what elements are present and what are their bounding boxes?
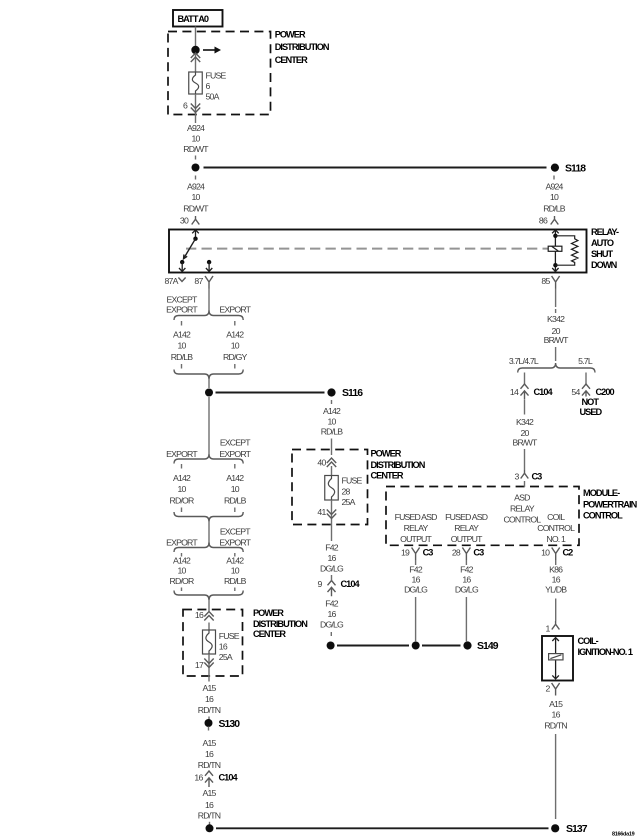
svg-text:RD/TN: RD/TN [198, 760, 221, 770]
svg-text:A924: A924 [187, 182, 205, 192]
svg-text:K342: K342 [516, 417, 534, 427]
svg-text:16: 16 [194, 773, 203, 783]
svg-text:16: 16 [205, 749, 214, 759]
svg-text:A142: A142 [323, 406, 341, 416]
svg-text:EXPORT: EXPORT [219, 449, 251, 459]
svg-text:16: 16 [205, 694, 214, 704]
svg-text:RD/OR: RD/OR [170, 496, 195, 506]
svg-text:14: 14 [510, 387, 519, 397]
svg-text:RELAY-: RELAY- [591, 227, 619, 237]
svg-text:54: 54 [571, 387, 580, 397]
svg-text:EXPORT: EXPORT [219, 305, 251, 315]
svg-text:FUSE: FUSE [206, 71, 227, 81]
svg-text:C3: C3 [532, 471, 543, 481]
svg-text:MODULE-: MODULE- [583, 488, 620, 498]
svg-text:POWERTRAIN: POWERTRAIN [583, 500, 638, 510]
svg-text:16: 16 [552, 710, 561, 720]
svg-text:16: 16 [205, 800, 214, 810]
svg-text:S149: S149 [477, 641, 499, 652]
svg-text:RD/TN: RD/TN [198, 811, 221, 821]
svg-text:86: 86 [539, 216, 548, 226]
svg-text:A924: A924 [545, 182, 563, 192]
svg-text:A142: A142 [173, 473, 191, 483]
svg-text:A15: A15 [202, 788, 216, 798]
svg-text:EXPORT: EXPORT [166, 449, 198, 459]
svg-text:20: 20 [520, 428, 529, 438]
svg-text:10: 10 [191, 134, 200, 144]
svg-text:17: 17 [195, 660, 204, 670]
svg-text:RELAY: RELAY [510, 504, 535, 514]
svg-text:RD/LB: RD/LB [543, 204, 566, 214]
svg-text:RD/LB: RD/LB [321, 427, 344, 437]
svg-text:30: 30 [180, 216, 189, 226]
svg-text:16: 16 [552, 575, 561, 585]
svg-text:A15: A15 [202, 738, 216, 748]
svg-text:F42: F42 [325, 599, 339, 609]
svg-text:16: 16 [195, 610, 204, 620]
svg-text:DG/LG: DG/LG [404, 585, 428, 595]
svg-text:16: 16 [412, 575, 421, 585]
svg-text:YL/DB: YL/DB [545, 585, 567, 595]
svg-text:C3: C3 [473, 548, 484, 558]
svg-text:16: 16 [219, 642, 228, 652]
svg-text:FUSED ASD: FUSED ASD [395, 512, 438, 522]
svg-text:OUTPUT: OUTPUT [451, 534, 483, 544]
svg-text:A142: A142 [226, 330, 244, 340]
svg-text:25A: 25A [342, 497, 356, 507]
svg-text:C2: C2 [563, 548, 574, 558]
svg-text:EXCEPT: EXCEPT [167, 294, 198, 304]
svg-text:POWER: POWER [275, 30, 306, 40]
svg-text:ASD: ASD [514, 493, 530, 503]
svg-text:DISTRIBUTION: DISTRIBUTION [275, 42, 330, 52]
svg-text:K342: K342 [547, 314, 565, 324]
svg-text:OUTPUT: OUTPUT [400, 534, 432, 544]
svg-text:RD/TN: RD/TN [198, 705, 221, 715]
svg-text:10: 10 [541, 548, 550, 558]
svg-text:RD/GY: RD/GY [223, 352, 248, 362]
svg-text:3.7L/4.7L: 3.7L/4.7L [509, 356, 539, 366]
svg-text:RD/WT: RD/WT [183, 144, 209, 154]
svg-text:16: 16 [462, 575, 471, 585]
svg-text:10: 10 [177, 566, 186, 576]
svg-text:10: 10 [231, 566, 240, 576]
svg-text:28: 28 [342, 487, 351, 497]
svg-text:87A: 87A [165, 276, 179, 286]
svg-text:BR/WT: BR/WT [544, 335, 569, 345]
svg-text:S116: S116 [342, 388, 363, 399]
svg-text:A0: A0 [198, 14, 209, 24]
svg-text:RD/LB: RD/LB [224, 576, 247, 586]
svg-text:85: 85 [541, 276, 550, 286]
svg-text:19: 19 [401, 548, 410, 558]
svg-text:50A: 50A [206, 92, 220, 102]
svg-text:10: 10 [177, 484, 186, 494]
svg-text:CONTROL: CONTROL [583, 511, 623, 521]
svg-text:10: 10 [327, 417, 336, 427]
svg-text:87: 87 [194, 276, 203, 286]
svg-text:BATT: BATT [178, 14, 199, 24]
svg-text:25A: 25A [219, 652, 233, 662]
svg-text:40: 40 [317, 457, 326, 467]
svg-text:CENTER: CENTER [275, 55, 308, 65]
svg-text:EXCEPT: EXCEPT [220, 527, 251, 537]
svg-text:10: 10 [550, 192, 559, 202]
svg-text:DG/LG: DG/LG [320, 620, 344, 630]
svg-text:EXPORT: EXPORT [166, 538, 198, 548]
svg-text:C3: C3 [423, 548, 434, 558]
svg-text:RELAY: RELAY [404, 523, 429, 533]
svg-text:FUSE: FUSE [342, 476, 363, 486]
svg-text:41: 41 [317, 507, 326, 517]
svg-text:DISTRIBUTION: DISTRIBUTION [371, 460, 426, 470]
svg-text:COIL-: COIL- [578, 636, 599, 646]
svg-text:A142: A142 [226, 473, 244, 483]
svg-text:RD/WT: RD/WT [183, 204, 209, 214]
svg-text:16: 16 [327, 609, 336, 619]
svg-text:CENTER: CENTER [253, 629, 286, 639]
svg-text:C104: C104 [534, 387, 554, 397]
svg-text:S130: S130 [219, 719, 241, 730]
svg-text:K86: K86 [549, 565, 563, 575]
svg-text:10: 10 [231, 341, 240, 351]
svg-text:DG/LG: DG/LG [455, 585, 479, 595]
svg-text:A142: A142 [226, 556, 244, 566]
svg-text:C104: C104 [341, 579, 361, 589]
svg-text:F42: F42 [460, 565, 474, 575]
svg-text:A142: A142 [173, 556, 191, 566]
svg-text:16: 16 [327, 553, 336, 563]
svg-text:EXPORT: EXPORT [219, 538, 251, 548]
svg-text:S137: S137 [566, 824, 588, 835]
svg-text:EXCEPT: EXCEPT [220, 438, 251, 448]
svg-text:USED: USED [580, 407, 603, 417]
svg-text:CONTROL: CONTROL [503, 515, 541, 525]
svg-text:C104: C104 [219, 773, 239, 783]
svg-text:F42: F42 [325, 543, 339, 553]
svg-text:A15: A15 [549, 699, 563, 709]
svg-text:RD/LB: RD/LB [171, 352, 194, 362]
svg-text:BR/WT: BR/WT [513, 438, 538, 448]
svg-text:FUSE: FUSE [219, 631, 240, 641]
svg-text:COIL: COIL [547, 512, 565, 522]
svg-text:IGNITION-NO. 1: IGNITION-NO. 1 [578, 647, 633, 657]
svg-text:F42: F42 [409, 565, 423, 575]
svg-text:SHUT: SHUT [591, 249, 614, 259]
svg-text:NO. 1: NO. 1 [546, 534, 566, 544]
svg-text:RELAY: RELAY [454, 523, 479, 533]
svg-text:RD/LB: RD/LB [224, 496, 247, 506]
svg-text:CONTROL: CONTROL [537, 523, 575, 533]
svg-text:EXPORT: EXPORT [166, 305, 198, 315]
svg-text:RD/TN: RD/TN [544, 721, 567, 731]
svg-text:10: 10 [231, 484, 240, 494]
svg-text:C200: C200 [596, 387, 615, 397]
svg-text:RD/OR: RD/OR [170, 576, 195, 586]
svg-text:A15: A15 [202, 683, 216, 693]
svg-text:8166da19: 8166da19 [612, 832, 635, 838]
svg-text:28: 28 [452, 548, 461, 558]
svg-text:A924: A924 [187, 123, 205, 133]
svg-text:AUTO: AUTO [591, 238, 614, 248]
svg-text:FUSED ASD: FUSED ASD [445, 512, 488, 522]
svg-text:10: 10 [177, 341, 186, 351]
svg-text:10: 10 [191, 192, 200, 202]
svg-text:DISTRIBUTION: DISTRIBUTION [253, 619, 308, 629]
svg-text:DG/LG: DG/LG [320, 564, 344, 574]
svg-text:S118: S118 [565, 163, 586, 174]
svg-text:5.7L: 5.7L [578, 356, 593, 366]
svg-text:POWER: POWER [371, 448, 402, 458]
svg-text:CENTER: CENTER [371, 470, 404, 480]
svg-text:DOWN: DOWN [591, 260, 618, 270]
svg-text:A142: A142 [173, 330, 191, 340]
svg-text:NOT: NOT [582, 397, 600, 407]
svg-text:POWER: POWER [253, 608, 284, 618]
